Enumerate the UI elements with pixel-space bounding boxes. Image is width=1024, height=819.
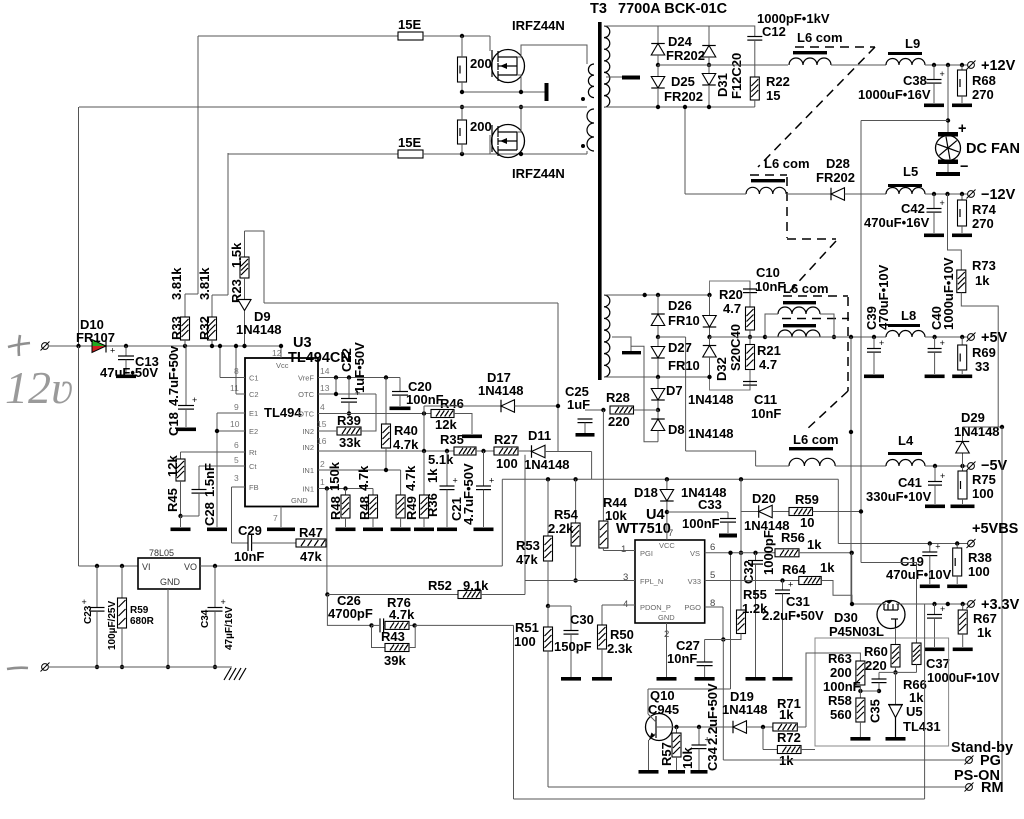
transformer T3 core xyxy=(598,22,602,380)
wire D11 drop xyxy=(558,451,592,453)
svg-text:FR202: FR202 xyxy=(666,48,705,63)
svg-text:C945: C945 xyxy=(648,702,679,717)
svg-text:39k: 39k xyxy=(384,653,406,668)
svg-text:TL431: TL431 xyxy=(903,719,941,734)
resistor R49 4.7k xyxy=(400,470,402,495)
svg-text:Rt: Rt xyxy=(249,448,257,457)
resistor R48 150k xyxy=(345,489,347,496)
svg-text:C41: C41 xyxy=(898,475,922,490)
ground R38 xyxy=(947,585,967,589)
svg-text:13: 13 xyxy=(320,383,330,393)
ground U3 xyxy=(267,528,295,532)
svg-text:7700A BCK-01C: 7700A BCK-01C xyxy=(618,1,728,17)
svg-text:12ʋ: 12ʋ xyxy=(5,362,74,413)
ground C33 xyxy=(719,534,737,538)
ground R69 xyxy=(952,375,972,379)
svg-text:1uF: 1uF xyxy=(567,397,590,412)
node C23 xyxy=(95,665,99,669)
ground C20 xyxy=(390,407,411,411)
diode D31 F12C20 lower xyxy=(708,65,710,73)
terminal +12V xyxy=(967,61,976,70)
wire input rail xyxy=(48,345,92,347)
svg-text:E2: E2 xyxy=(249,427,258,436)
resistor R75 100 xyxy=(962,466,964,471)
capacitor C31 2.2uF 50V xyxy=(782,581,784,590)
svg-text:3: 3 xyxy=(234,473,239,483)
svg-text:RM: RM xyxy=(981,780,1004,796)
svg-text:2: 2 xyxy=(320,459,325,469)
svg-text:C30: C30 xyxy=(570,612,594,627)
wire R27-D11 xyxy=(518,450,531,452)
ground R75 xyxy=(951,505,975,509)
svg-text:GND: GND xyxy=(160,577,181,587)
wire gate drive bottom xyxy=(228,153,398,154)
svg-text:IN2: IN2 xyxy=(302,443,314,452)
svg-text:47k: 47k xyxy=(300,549,322,564)
resistor 200 (bottom) xyxy=(458,120,467,144)
transformer primary winding top xyxy=(588,64,594,98)
wire D8 return xyxy=(631,346,658,441)
svg-text:200: 200 xyxy=(830,665,852,680)
svg-text:L6 com: L6 com xyxy=(793,432,839,447)
svg-text:R56: R56 xyxy=(781,530,805,545)
svg-text:R60: R60 xyxy=(864,644,888,659)
svg-text:200: 200 xyxy=(470,119,492,134)
ground C39 xyxy=(864,375,884,379)
svg-text:1N4148: 1N4148 xyxy=(688,392,734,407)
phase dot primary top xyxy=(581,97,585,101)
svg-text:4.7uF•50v: 4.7uF•50v xyxy=(166,345,181,406)
wire R64 row xyxy=(731,580,799,582)
node gate bottom xyxy=(460,152,464,156)
svg-text:15: 15 xyxy=(317,419,327,429)
coupling dashes 3 xyxy=(847,297,849,391)
capacitor C42 470uF 16V xyxy=(933,194,935,208)
ground R74 xyxy=(952,234,972,238)
ground C38 xyxy=(924,104,944,108)
wire gate row xyxy=(852,603,878,605)
svg-text:R55: R55 xyxy=(743,587,767,602)
svg-text:D24: D24 xyxy=(668,34,693,49)
resistor R38 100 xyxy=(956,544,958,549)
svg-text:R69: R69 xyxy=(972,345,996,360)
svg-text:C42: C42 xyxy=(901,201,925,216)
svg-text:+: + xyxy=(940,471,945,481)
transformer secondary winding 12V xyxy=(604,26,610,107)
svg-text:L8: L8 xyxy=(901,308,916,323)
ground C40 xyxy=(925,375,945,379)
wire R35-R27 xyxy=(476,450,494,452)
svg-text:D8: D8 xyxy=(668,422,685,437)
wire drive vert B xyxy=(227,153,229,295)
svg-text:L6 com: L6 com xyxy=(783,281,829,296)
node R52 left xyxy=(325,592,329,596)
wire +5V raw rail xyxy=(710,336,751,338)
svg-text:R20: R20 xyxy=(719,287,743,302)
svg-text:+: + xyxy=(958,121,966,137)
resistor R21 4.7 xyxy=(749,337,751,345)
svg-text:C1: C1 xyxy=(249,374,259,383)
svg-text:12: 12 xyxy=(272,348,282,358)
terminal -5V xyxy=(967,462,976,471)
resistor R55 1.2k xyxy=(740,553,742,610)
svg-text:Q10: Q10 xyxy=(650,688,675,703)
wire C26 drop xyxy=(327,595,371,626)
svg-text:1uF•50V: 1uF•50V xyxy=(352,342,367,393)
svg-text:+12V: +12V xyxy=(981,58,1016,74)
svg-text:D30: D30 xyxy=(834,610,858,625)
wire to PSON net xyxy=(415,624,514,626)
svg-text:R67: R67 xyxy=(973,611,997,626)
svg-text:14: 14 xyxy=(320,366,330,376)
svg-text:1000uF•10V: 1000uF•10V xyxy=(927,670,1000,685)
node D25 bottom xyxy=(656,105,660,109)
node D32 bottom xyxy=(707,375,711,379)
handwritten plus xyxy=(8,335,30,356)
fan return bar xyxy=(947,164,949,172)
wire right edge vertical xyxy=(1001,427,1003,788)
ground R45 xyxy=(180,516,182,527)
svg-text:560: 560 xyxy=(830,707,852,722)
resistor R57 10k xyxy=(676,727,678,733)
resistor R47 47k xyxy=(296,539,326,547)
svg-text:VI: VI xyxy=(142,562,151,572)
capacitor C35 xyxy=(878,672,880,678)
svg-text:PGO: PGO xyxy=(684,603,701,612)
diode D32 S20C40 upper xyxy=(709,295,711,315)
wire drain bottom MOSFET xyxy=(517,107,521,132)
terminal +3.3V xyxy=(967,600,976,609)
svg-text:WT7510: WT7510 xyxy=(616,521,671,537)
svg-text:1000pF: 1000pF xyxy=(761,530,776,575)
svg-text:4.7k: 4.7k xyxy=(393,437,419,452)
svg-text:IRFZ44N: IRFZ44N xyxy=(512,166,565,181)
svg-text:+5V: +5V xyxy=(981,330,1008,346)
ground E1E2 xyxy=(207,528,227,532)
capacitor C25 1uF xyxy=(585,409,603,411)
svg-text:100: 100 xyxy=(514,634,536,649)
svg-text:+: + xyxy=(788,580,793,590)
svg-text:VS: VS xyxy=(690,549,700,558)
svg-text:+: + xyxy=(192,395,197,405)
svg-text:C34: C34 xyxy=(705,746,720,771)
capacitor C18 4.7uF 50v xyxy=(183,344,187,348)
transformer primary winding bottom xyxy=(587,109,594,151)
node R53 top xyxy=(546,477,550,481)
node input vert xyxy=(76,344,80,348)
svg-text:+: + xyxy=(221,597,226,607)
svg-text:R38: R38 xyxy=(968,550,992,565)
capacitor C34 2.2uF 50V xyxy=(698,727,700,745)
svg-text:10nF: 10nF xyxy=(234,549,264,564)
svg-text:R28: R28 xyxy=(606,390,630,405)
svg-text:D18: D18 xyxy=(634,485,658,500)
svg-text:D7: D7 xyxy=(666,383,683,398)
wire 5V sec bottom rail xyxy=(604,376,710,378)
resistor R52 9.1k xyxy=(327,594,458,596)
svg-text:FR107: FR107 xyxy=(76,330,115,345)
wire 15E to gate xyxy=(423,35,490,37)
node C25 R28 xyxy=(601,408,605,412)
svg-text:IRFZ44N: IRFZ44N xyxy=(512,18,565,33)
svg-text:C38: C38 xyxy=(903,73,927,88)
svg-text:R54: R54 xyxy=(554,507,579,522)
svg-text:1N4148: 1N4148 xyxy=(688,426,734,441)
svg-text:4.7: 4.7 xyxy=(723,301,741,316)
wire L6com4 to L4 xyxy=(756,465,789,467)
capacitor C21 4.7uF 50V xyxy=(446,451,448,486)
capacitor C34 47uF 16V xyxy=(213,564,217,568)
svg-text:FR10: FR10 xyxy=(668,313,700,328)
svg-text:1k: 1k xyxy=(975,273,990,288)
svg-text:2.2k: 2.2k xyxy=(548,521,574,536)
svg-text:C37: C37 xyxy=(926,656,950,671)
svg-text:VO: VO xyxy=(184,562,197,572)
svg-text:D28: D28 xyxy=(826,156,850,171)
svg-text:+5VBS: +5VBS xyxy=(972,521,1019,537)
pin 1 IN1 wire xyxy=(318,488,373,490)
wire Q10 collector bus xyxy=(648,688,731,690)
wire D20 feed xyxy=(740,479,742,553)
wire secondary bottom rail xyxy=(604,106,755,108)
svg-text:1: 1 xyxy=(320,477,325,487)
svg-text:+: + xyxy=(489,476,494,486)
capacitor C39 470uF 10V xyxy=(873,337,875,348)
svg-text:470uF•10V: 470uF•10V xyxy=(876,264,891,330)
svg-text:1N4148: 1N4148 xyxy=(236,322,282,337)
diode D26 FR10 xyxy=(657,295,659,314)
resistor R56 1k xyxy=(775,549,799,557)
node R51 top xyxy=(546,604,550,608)
wire 15E2 to transformer xyxy=(423,153,587,155)
diode D32 S20C40 lower xyxy=(709,337,711,345)
svg-text:C33: C33 xyxy=(698,497,722,512)
resistor R76 4.7k xyxy=(385,621,409,629)
wire +3.3V rail xyxy=(905,603,969,605)
DC FAN xyxy=(938,132,958,137)
svg-text:7: 7 xyxy=(668,528,673,539)
resistor R46 12k xyxy=(431,410,454,418)
ground R49 xyxy=(391,528,411,532)
ground R48a xyxy=(336,528,356,532)
svg-text:15E: 15E xyxy=(398,17,421,32)
pin 10 E2 wire xyxy=(217,430,245,432)
svg-text:L9: L9 xyxy=(905,36,920,51)
svg-text:11: 11 xyxy=(230,383,239,393)
svg-text:100: 100 xyxy=(496,456,518,471)
ground C21 xyxy=(437,528,457,532)
svg-text:470uF•10V: 470uF•10V xyxy=(886,567,952,582)
pin 1 PGI wire xyxy=(603,550,635,552)
terminal PG xyxy=(965,756,974,765)
pin 15 IN2 wire + resistor R39 33k xyxy=(337,427,361,435)
svg-text:1k: 1k xyxy=(779,707,794,722)
node gate top xyxy=(460,34,464,38)
svg-text:1k: 1k xyxy=(977,625,992,640)
svg-text:15E: 15E xyxy=(398,135,421,150)
primary center bar xyxy=(545,83,549,101)
wire +12V raw rail xyxy=(658,64,788,66)
wire aux vert right xyxy=(924,604,926,799)
node box top-left xyxy=(707,293,711,297)
pin 4 PDON wire xyxy=(602,604,635,606)
pin 6 Rt wire xyxy=(181,451,246,453)
resistor R48 4.7k xyxy=(372,489,374,496)
5V center tap xyxy=(612,337,631,351)
diode D18 1N4148 xyxy=(665,477,669,481)
diode D29 1N4148 xyxy=(962,427,964,441)
svg-text:R39: R39 xyxy=(337,413,361,428)
wire D29 top xyxy=(963,426,1003,428)
svg-text:C34: C34 xyxy=(200,609,211,628)
transformer secondary winding 5V xyxy=(604,295,610,377)
svg-text:FR10: FR10 xyxy=(668,358,700,373)
svg-text:2.2uF•50V: 2.2uF•50V xyxy=(762,608,824,623)
wire primary bus xyxy=(79,106,587,108)
svg-text:+: + xyxy=(940,604,945,614)
capacitor C23 100uF 25V xyxy=(95,564,99,568)
wire pin1 drop xyxy=(326,489,328,595)
svg-text:470uF•16V: 470uF•16V xyxy=(864,215,930,230)
wire aux 5VSB row xyxy=(502,478,838,480)
resistor R66 1k xyxy=(912,643,921,665)
svg-text:R36: R36 xyxy=(425,493,440,517)
svg-text:D29: D29 xyxy=(961,410,985,425)
wire fan aux vertical xyxy=(860,121,862,563)
pin 7 VCC stub xyxy=(666,512,668,540)
svg-text:+: + xyxy=(879,338,884,348)
capacitor C21b xyxy=(483,451,485,486)
ground R57 xyxy=(668,770,685,774)
svg-text:10nF: 10nF xyxy=(751,406,781,421)
wire 5V aux branch xyxy=(658,336,686,338)
capacitor C20 100nF xyxy=(399,378,401,392)
svg-text:L5: L5 xyxy=(903,164,918,179)
svg-text:OTC: OTC xyxy=(298,410,314,419)
ground C19 xyxy=(920,585,940,589)
wire drain top MOSFET xyxy=(517,45,587,64)
wire left feed vertical xyxy=(78,107,80,346)
svg-text:+: + xyxy=(82,597,87,607)
svg-text:100: 100 xyxy=(968,564,990,579)
svg-text:150pF: 150pF xyxy=(554,639,592,654)
resistor R40 4.7k xyxy=(385,378,387,425)
wire base row xyxy=(673,726,734,728)
svg-text:R49: R49 xyxy=(404,496,419,520)
svg-text:DC FAN: DC FAN xyxy=(966,141,1020,157)
svg-text:270: 270 xyxy=(972,87,994,102)
pin 7 GND stub xyxy=(280,507,282,528)
svg-text:10: 10 xyxy=(230,419,240,429)
wire gate drive top xyxy=(198,35,398,37)
svg-text:R51: R51 xyxy=(515,620,539,635)
svg-text:PG: PG xyxy=(980,753,1001,769)
capacitor C13 47uF 50V xyxy=(124,344,128,348)
capacitor C26 4700pF xyxy=(380,618,384,632)
diode D17 1N4148 xyxy=(424,405,501,407)
svg-text:1k: 1k xyxy=(807,537,822,552)
svg-text:R27: R27 xyxy=(494,432,518,447)
svg-text:C31: C31 xyxy=(786,594,810,609)
node D32 mid xyxy=(707,335,711,339)
svg-text:4700pF: 4700pF xyxy=(328,606,373,621)
diode D28 FR202 xyxy=(831,188,845,201)
resistor R69 33 xyxy=(961,337,963,345)
svg-text:100: 100 xyxy=(972,486,994,501)
resistor R60 220 xyxy=(895,628,897,645)
svg-text:C29: C29 xyxy=(238,523,262,538)
svg-text:16: 16 xyxy=(317,436,327,446)
terminal -12V xyxy=(967,190,976,199)
resistor R23 1.5k xyxy=(245,231,265,303)
svg-text:2.3k: 2.3k xyxy=(607,641,633,656)
regulator 78L05 xyxy=(138,558,200,589)
svg-text:78L05: 78L05 xyxy=(149,548,174,558)
svg-text:R47: R47 xyxy=(299,525,323,540)
wire choke right xyxy=(820,314,834,337)
svg-text:330uF•10V: 330uF•10V xyxy=(866,489,932,504)
resistor 200 (top) xyxy=(458,57,467,82)
wire +5VBS rail xyxy=(837,479,839,543)
svg-text:D32: D32 xyxy=(714,357,729,381)
ground C42 xyxy=(924,234,944,238)
svg-text:9: 9 xyxy=(234,402,239,412)
wire D20 row xyxy=(741,511,759,513)
phase dot primary bottom xyxy=(581,144,585,148)
resistor R36 1k xyxy=(423,451,425,495)
svg-text:+: + xyxy=(940,198,945,208)
ground C34b xyxy=(691,770,708,774)
svg-text:680R: 680R xyxy=(130,616,155,627)
svg-text:R59: R59 xyxy=(130,605,149,616)
ground R48b xyxy=(363,528,383,532)
svg-text:L4: L4 xyxy=(898,433,914,448)
ground R68 xyxy=(952,104,972,108)
svg-text:1.5nF: 1.5nF xyxy=(202,463,217,497)
ground R50 xyxy=(592,677,612,681)
svg-text:C12: C12 xyxy=(762,24,786,39)
pin 13 OTC wire xyxy=(318,393,376,395)
svg-text:U5: U5 xyxy=(906,704,923,719)
svg-text:C28: C28 xyxy=(202,502,217,526)
wire V33 to Q10 xyxy=(730,553,732,689)
pin 8 PGO wire xyxy=(705,606,723,608)
svg-text:+: + xyxy=(940,69,945,79)
pin 14 VreF rail xyxy=(318,377,400,379)
resistor R54 2.2k xyxy=(575,479,577,523)
svg-text:15: 15 xyxy=(766,88,780,103)
ground R46 xyxy=(462,435,482,439)
svg-text:GND: GND xyxy=(658,613,675,622)
svg-text:Ct: Ct xyxy=(249,462,257,471)
svg-text:33: 33 xyxy=(975,359,989,374)
diode D27 FR10 xyxy=(657,337,659,346)
svg-text:U3: U3 xyxy=(293,335,312,351)
ground U5 xyxy=(886,737,906,741)
resistor R28 220 xyxy=(610,406,634,414)
ground C18 xyxy=(176,428,196,432)
wire Q10 emitter xyxy=(648,740,650,770)
wire 200 top leads xyxy=(461,36,463,57)
ground Q10 xyxy=(639,770,659,774)
secondary center tap xyxy=(606,76,622,78)
resistor R44 10k xyxy=(599,521,608,548)
svg-text:+: + xyxy=(935,542,940,552)
svg-text:D20: D20 xyxy=(752,491,776,506)
svg-text:10: 10 xyxy=(800,515,814,530)
terminal RM xyxy=(965,783,974,792)
svg-text:C23: C23 xyxy=(83,605,94,624)
